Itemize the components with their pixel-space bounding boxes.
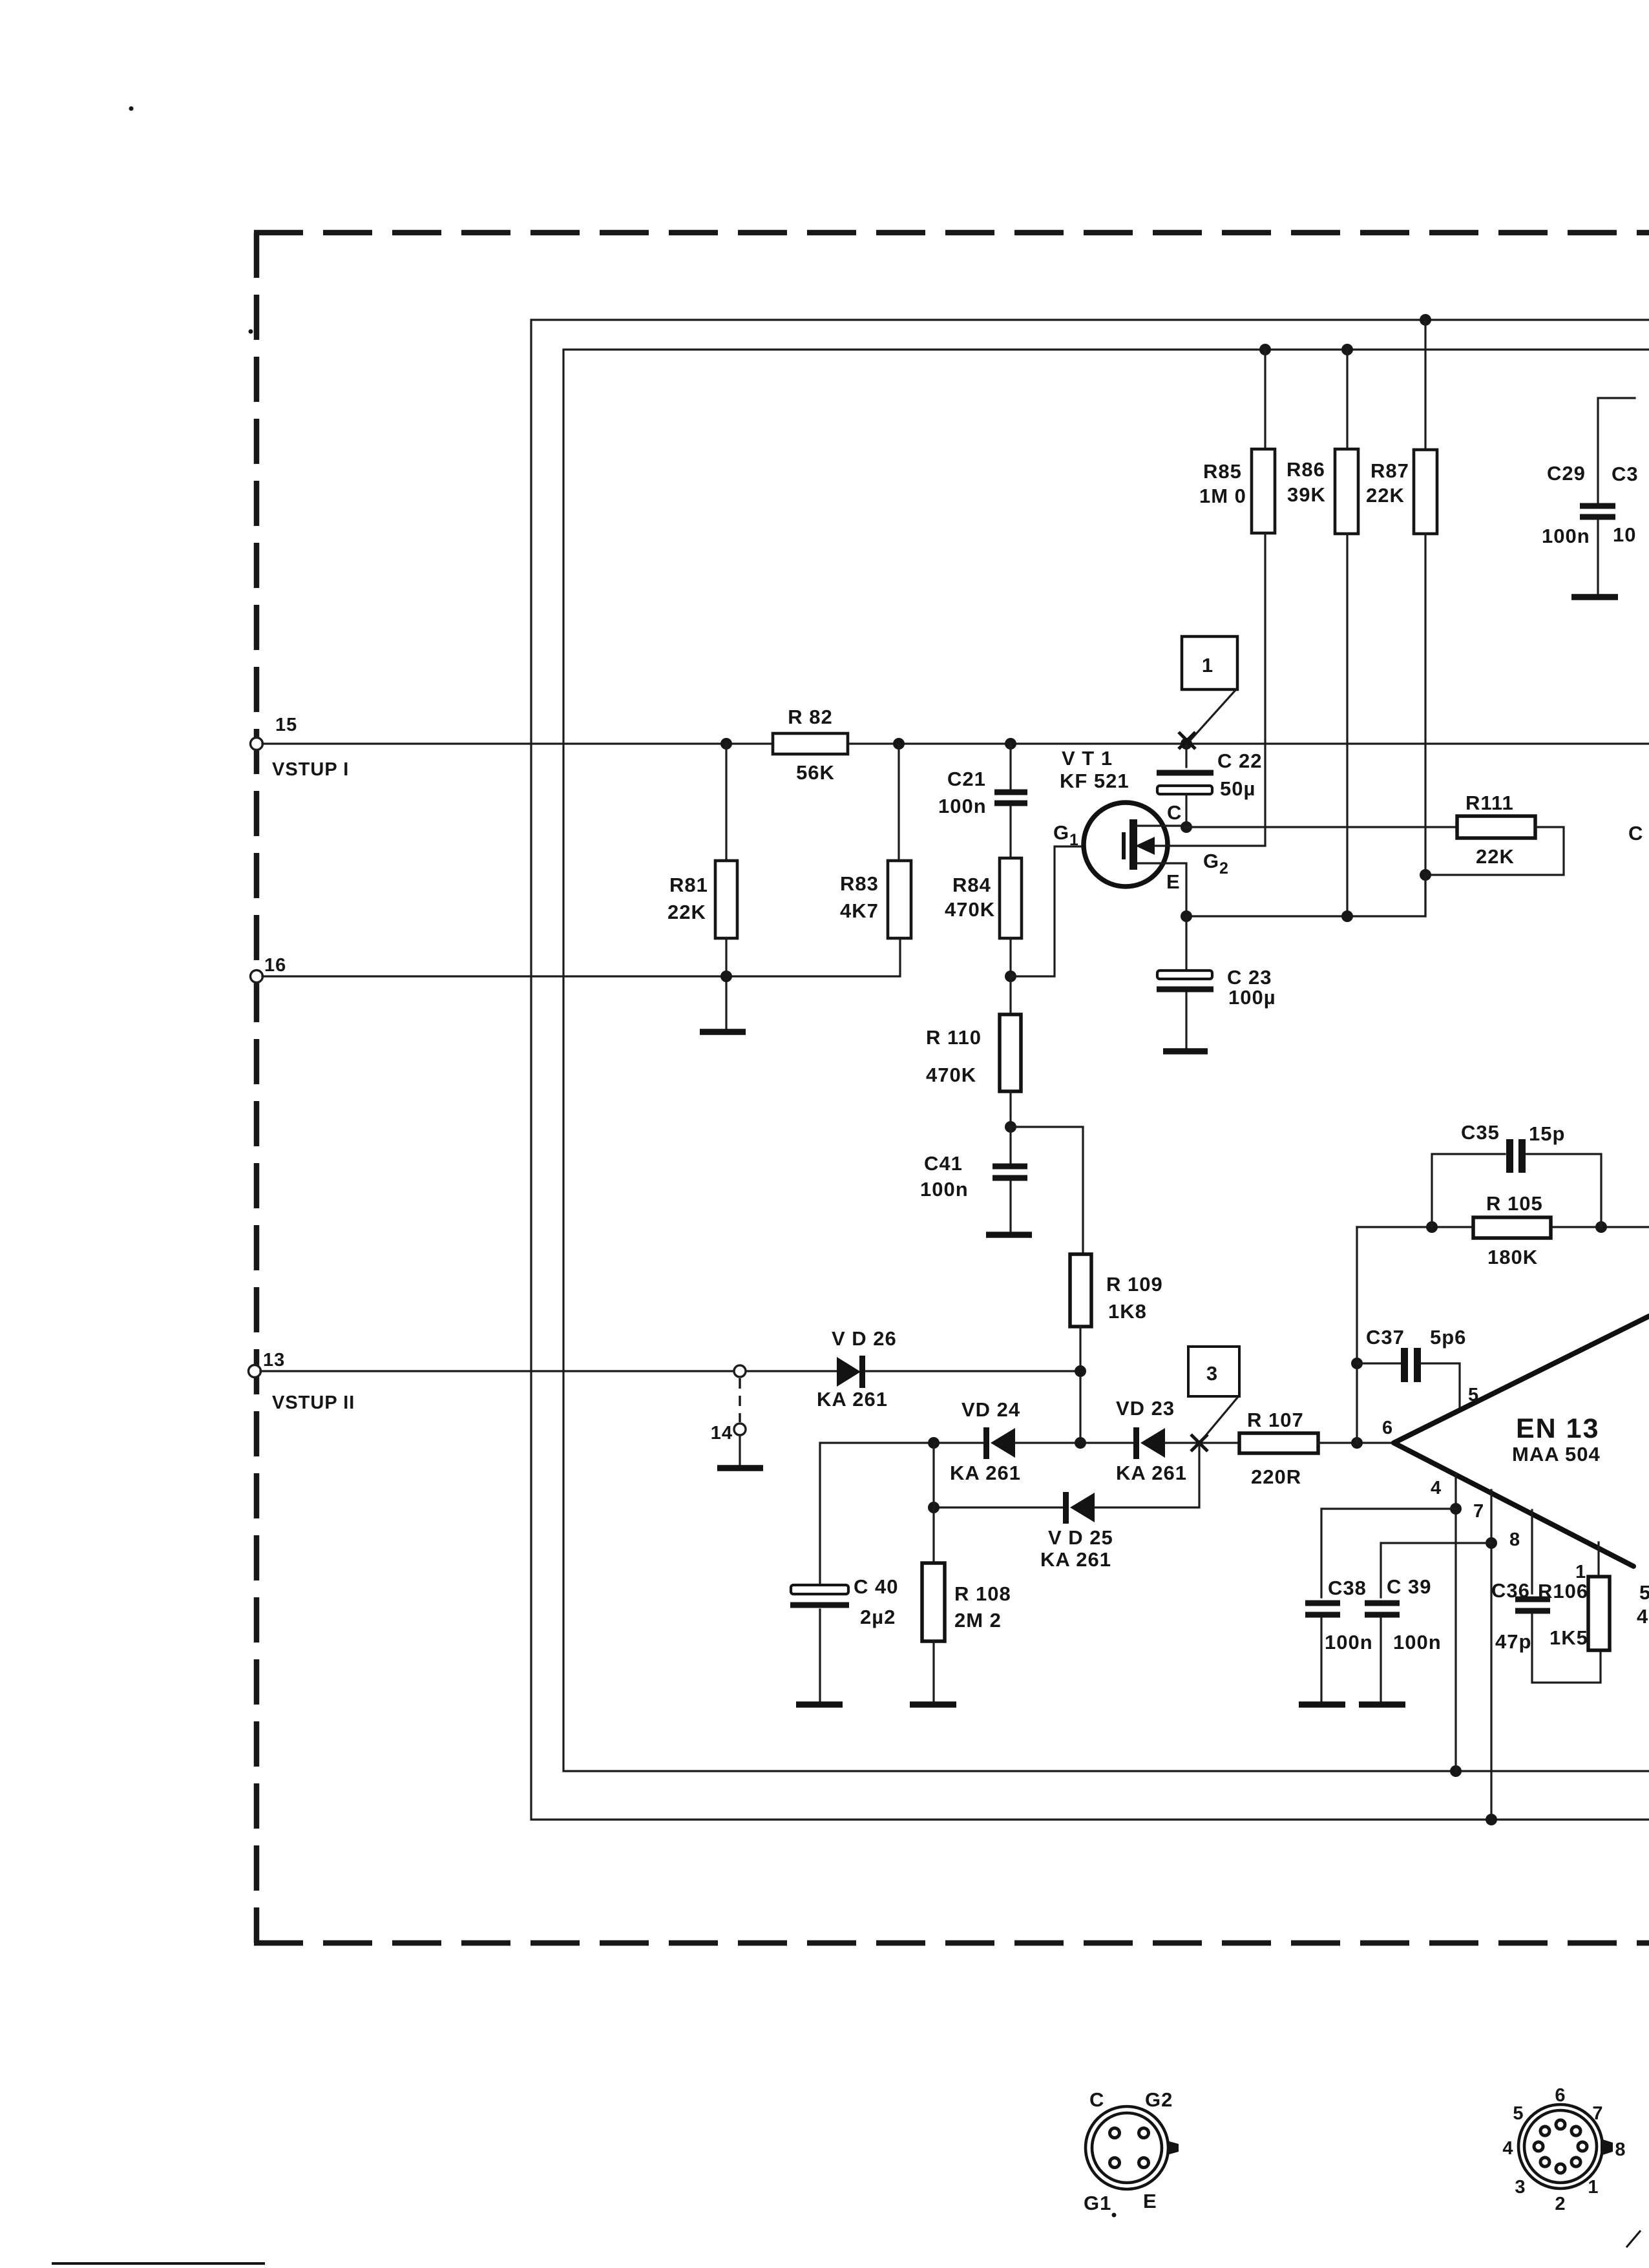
svg-text:V T 1: V T 1	[1062, 747, 1113, 770]
svg-text:R 108: R 108	[954, 1582, 1011, 1605]
ground below C23	[1163, 1048, 1208, 1055]
outer shield box (wire)	[531, 320, 1649, 1820]
wire: VD24 to VD23	[1015, 1442, 1134, 1444]
svg-text:2: 2	[1555, 2194, 1566, 2214]
svg-text:22K: 22K	[667, 901, 706, 923]
junction: node 1 / C22 top	[1181, 738, 1192, 750]
svg-text:2: 2	[1219, 859, 1228, 877]
svg-text:C3: C3	[1612, 463, 1639, 485]
svg-text:R81: R81	[669, 874, 708, 896]
svg-text:470K: 470K	[926, 1064, 976, 1086]
svg-text:2µ2: 2µ2	[860, 1606, 896, 1628]
svg-text:EN 13: EN 13	[1516, 1413, 1600, 1444]
svg-text:E: E	[1143, 2190, 1157, 2212]
scan speck 2	[249, 330, 253, 334]
resistor R82	[773, 733, 848, 754]
resistor R85	[1252, 350, 1275, 845]
junction: C37 tap	[1351, 1358, 1363, 1369]
junction: R86 top on inner shield rail	[1341, 344, 1353, 355]
diode VD24	[983, 1427, 1015, 1459]
svg-text:G2: G2	[1145, 2088, 1173, 2111]
svg-text:C29: C29	[1547, 462, 1586, 485]
junction: R86 bottom on E net	[1341, 910, 1353, 922]
svg-text:MAA 504: MAA 504	[1512, 1443, 1601, 1465]
svg-text:14: 14	[711, 1423, 733, 1444]
svg-text:1: 1	[1069, 831, 1078, 849]
junction: row node above R108	[928, 1437, 940, 1449]
svg-text:G: G	[1053, 821, 1069, 844]
module dashed boundary: bottom edge	[254, 1940, 1649, 1946]
node box 3	[1188, 1347, 1239, 1396]
wire: diagonal from box 1 to line 15	[1189, 689, 1236, 742]
svg-text:C 39: C 39	[1387, 1575, 1431, 1598]
svg-text:22K: 22K	[1366, 484, 1405, 507]
resistor R110	[1000, 976, 1021, 1127]
resistor R107	[1239, 1433, 1318, 1453]
svg-text:56K: 56K	[796, 761, 835, 784]
svg-text:100n: 100n	[1325, 1631, 1373, 1654]
ground below contact 14	[717, 1465, 763, 1471]
capacitor C39	[1365, 1603, 1400, 1701]
capacitor C40 (electrolytic)	[790, 1585, 849, 1701]
svg-text:C36: C36	[1491, 1579, 1530, 1602]
svg-text:R 110: R 110	[926, 1026, 982, 1049]
wire: C39 branch	[1381, 1543, 1491, 1597]
terminal 16	[251, 971, 263, 983]
resistor R84	[1000, 858, 1022, 976]
junction: R84 bottom / G1 net	[1005, 971, 1016, 982]
junction: R111 return on R87 riser	[1420, 869, 1431, 881]
stray mark bottom-left	[52, 2262, 265, 2265]
svg-text:R106: R106	[1538, 1580, 1588, 1602]
8-pin socket pinout	[1518, 2105, 1613, 2189]
wire: diode row from C40 corner to VD24	[820, 1443, 984, 1585]
junction: VD25 row above R108	[928, 1502, 940, 1513]
svg-text:100n: 100n	[1393, 1631, 1442, 1654]
wire: riser between diode rows	[932, 1443, 934, 1507]
wire: R111 right end down to R87 riser	[1425, 827, 1564, 875]
junction: C21 top	[1005, 738, 1016, 750]
op-amp EN13 (MAA 504) open triangle	[1394, 1316, 1649, 1566]
svg-text:47p: 47p	[1495, 1630, 1531, 1653]
svg-text:KA 261: KA 261	[817, 1388, 888, 1411]
capacitor C29	[1580, 398, 1635, 594]
svg-text:13: 13	[263, 1350, 285, 1370]
ground below C29	[1571, 594, 1618, 600]
svg-text:5: 5	[1513, 2103, 1524, 2124]
node box 1	[1182, 636, 1237, 689]
svg-text:1K8: 1K8	[1108, 1300, 1147, 1323]
svg-text:470K: 470K	[945, 898, 995, 921]
scan speck period after G1	[1112, 2213, 1117, 2218]
VT1 socket pinout	[1086, 2106, 1179, 2189]
ground below C38	[1299, 1701, 1345, 1708]
svg-text:C 22: C 22	[1217, 750, 1262, 772]
wire: pin 8 riser down to outer shield	[1490, 1490, 1492, 1820]
wire: input line 15 (right of R82 to page edge)	[848, 742, 1649, 744]
svg-text:4: 4	[1431, 1478, 1442, 1498]
junction: pin7 riser on inner shield bottom	[1450, 1765, 1462, 1777]
scan speck slash bottom-right	[1626, 2231, 1641, 2247]
svg-text:3: 3	[1515, 2177, 1526, 2198]
wire: VD25 to node 3 riser	[1095, 1443, 1199, 1507]
svg-text:1: 1	[1588, 2177, 1599, 2198]
svg-text:C: C	[1089, 2088, 1104, 2111]
svg-text:C41: C41	[924, 1152, 963, 1175]
scan speck 1	[129, 107, 134, 111]
svg-text:4: 4	[1637, 1605, 1648, 1628]
capacitor C41	[993, 1127, 1027, 1232]
wire: VD23 to R107	[1165, 1442, 1239, 1444]
svg-text:KA 261: KA 261	[950, 1462, 1021, 1484]
svg-text:22K: 22K	[1476, 845, 1515, 868]
wire: R107 to op-amp input 6	[1318, 1442, 1394, 1444]
junction: R87 top on outer shield rail	[1420, 314, 1431, 326]
ground below C39	[1359, 1701, 1405, 1708]
junction: R110 bottom / C41 / R109	[1005, 1121, 1016, 1133]
svg-text:4: 4	[1502, 2138, 1513, 2159]
wire: input line 16	[262, 938, 900, 976]
wire: diagonal from box 3 to diode row	[1201, 1398, 1237, 1442]
wire: C node to R111 left	[1186, 826, 1457, 828]
svg-text:1: 1	[1202, 654, 1213, 677]
resistor R81	[715, 744, 737, 1029]
junction: R81 bottom on line 16	[720, 971, 732, 982]
switch contact 14	[734, 1423, 746, 1435]
svg-text:C 40: C 40	[854, 1575, 898, 1598]
svg-text:C 23: C 23	[1227, 966, 1272, 989]
capacitor C38	[1305, 1603, 1340, 1701]
diode VD25	[1063, 1492, 1095, 1524]
svg-text:100n: 100n	[938, 795, 987, 817]
junction: C35 left riser	[1426, 1221, 1438, 1233]
svg-text:R83: R83	[840, 872, 879, 895]
junction: C node (drain)	[1181, 821, 1192, 833]
svg-text:C: C	[1628, 822, 1643, 845]
svg-text:50µ: 50µ	[1220, 777, 1255, 800]
svg-text:VSTUP I: VSTUP I	[272, 759, 349, 780]
wire: contact 14 to ground	[739, 1435, 740, 1465]
svg-text:15: 15	[275, 715, 297, 735]
wire: input line 13 (left of VD26)	[260, 1370, 837, 1372]
module dashed boundary: left edge	[254, 233, 260, 1943]
resistor R83	[888, 744, 911, 938]
junction: R109 bottom on line 13	[1075, 1365, 1086, 1377]
svg-text:10: 10	[1613, 523, 1636, 546]
svg-text:VD 23: VD 23	[1116, 1397, 1175, 1420]
wire: input line 13 (right of VD26)	[865, 1370, 1082, 1372]
svg-text:16: 16	[264, 955, 286, 976]
junction: E node	[1181, 910, 1192, 922]
X mark at node 3 tap	[1191, 1434, 1208, 1451]
svg-text:6: 6	[1382, 1418, 1393, 1438]
capacitor C22 (electrolytic)	[1157, 744, 1213, 827]
svg-text:8: 8	[1615, 2139, 1626, 2160]
wire: pin 4/7 riser down to inner shield	[1455, 1473, 1456, 1771]
resistor R87	[1414, 320, 1437, 916]
svg-text:1M 0: 1M 0	[1199, 485, 1246, 507]
svg-text:R111: R111	[1465, 792, 1514, 814]
wire: G1 net from R84 junction up to gate G1	[1011, 846, 1083, 976]
svg-text:C21: C21	[947, 768, 986, 790]
capacitor C37	[1357, 1348, 1460, 1411]
ground below C40	[796, 1701, 843, 1708]
svg-text:100µ: 100µ	[1228, 986, 1276, 1009]
svg-text:100n: 100n	[920, 1178, 969, 1201]
svg-text:39K: 39K	[1287, 483, 1326, 506]
switch contact on line 13	[734, 1365, 746, 1377]
svg-text:C38: C38	[1328, 1577, 1367, 1599]
terminal 15	[251, 738, 263, 750]
svg-text:KF 521: KF 521	[1060, 770, 1129, 792]
wire: feedback riser (node 6 up to R105/C35)	[1356, 1227, 1358, 1443]
resistor R105	[1473, 1217, 1551, 1238]
ground below R108	[910, 1701, 956, 1708]
diode VD26	[837, 1356, 865, 1388]
wire: R105/C35 net to page edge	[1357, 1226, 1649, 1228]
svg-text:180K: 180K	[1487, 1246, 1538, 1268]
svg-text:7: 7	[1592, 2103, 1603, 2124]
junction: R109 riser on diode row	[1075, 1437, 1086, 1449]
svg-text:5: 5	[1639, 1581, 1649, 1604]
svg-text:8: 8	[1509, 1529, 1520, 1550]
svg-text:6: 6	[1555, 2085, 1566, 2106]
junction: C35 right riser	[1595, 1221, 1607, 1233]
svg-text:5: 5	[1468, 1385, 1479, 1405]
junction: pin8 riser on outer shield bottom	[1486, 1814, 1497, 1825]
svg-text:C37: C37	[1366, 1326, 1405, 1349]
svg-text:3: 3	[1206, 1362, 1218, 1385]
svg-text:C: C	[1167, 801, 1182, 824]
resistor R106	[1588, 1542, 1610, 1650]
svg-text:R85: R85	[1203, 460, 1242, 483]
svg-text:R84: R84	[952, 874, 991, 896]
wire: input line 15 (left of R82)	[262, 742, 773, 744]
svg-text:KA 261: KA 261	[1040, 1548, 1111, 1571]
capacitor C21	[994, 744, 1027, 858]
svg-text:V D 25: V D 25	[1048, 1526, 1113, 1549]
resistor R111	[1457, 816, 1535, 838]
svg-text:7: 7	[1473, 1501, 1484, 1522]
X mark at node 1 tap	[1179, 732, 1195, 749]
resistor R108	[922, 1507, 945, 1701]
svg-text:2M 2: 2M 2	[954, 1609, 1002, 1632]
capacitor C36	[1515, 1510, 1601, 1683]
junction: R85 top on inner shield rail	[1259, 344, 1271, 355]
wire: E net (source) to R86/R87 risers	[1186, 875, 1425, 916]
wire: VD25 row	[934, 1506, 1064, 1508]
svg-text:R 109: R 109	[1106, 1273, 1163, 1296]
svg-text:C35: C35	[1461, 1121, 1500, 1144]
wire: C38 branch	[1321, 1509, 1456, 1597]
svg-text:R 82: R 82	[788, 706, 832, 728]
svg-text:220R: 220R	[1251, 1465, 1301, 1488]
terminal 13	[249, 1365, 261, 1378]
svg-text:R86: R86	[1287, 458, 1325, 481]
resistor R86	[1335, 350, 1358, 916]
svg-text:R87: R87	[1371, 459, 1409, 482]
junction: R83 top	[893, 738, 905, 750]
svg-text:KA 261: KA 261	[1116, 1462, 1187, 1484]
junction: pin 8 node	[1486, 1537, 1497, 1549]
svg-text:E: E	[1166, 870, 1181, 893]
diode VD23	[1133, 1427, 1165, 1459]
svg-text:15p: 15p	[1529, 1122, 1565, 1145]
capacitor C35 (parallel with R105)	[1432, 1139, 1601, 1227]
svg-text:1K5: 1K5	[1549, 1626, 1588, 1649]
svg-text:VD 24: VD 24	[961, 1398, 1020, 1421]
svg-text:4K7: 4K7	[840, 899, 879, 922]
ground below R81	[700, 1029, 746, 1035]
svg-text:G1: G1	[1084, 2192, 1111, 2214]
svg-text:VSTUP II: VSTUP II	[272, 1392, 355, 1413]
svg-text:G: G	[1203, 850, 1219, 872]
junction: pin 7 node	[1450, 1503, 1462, 1515]
capacitor C23 (electrolytic)	[1157, 916, 1213, 1048]
ground below C41	[986, 1232, 1032, 1238]
transistor VT1 (dual-gate MOSFET KF 521)	[1084, 803, 1265, 916]
svg-text:5p6: 5p6	[1430, 1326, 1466, 1349]
wire: junction to R109 top	[1011, 1127, 1083, 1254]
svg-text:V D 26: V D 26	[832, 1327, 897, 1350]
svg-text:100n: 100n	[1542, 525, 1590, 547]
svg-text:R 105: R 105	[1486, 1192, 1543, 1215]
module dashed boundary: top edge	[254, 230, 1649, 236]
junction: node 6 / C37 branch	[1351, 1437, 1363, 1449]
junction: R81 top	[720, 738, 732, 750]
resistor R109	[1070, 1254, 1091, 1443]
svg-text:R 107: R 107	[1247, 1409, 1304, 1431]
dashed switch link	[739, 1378, 740, 1422]
inner shield box (wire)	[563, 350, 1649, 1771]
